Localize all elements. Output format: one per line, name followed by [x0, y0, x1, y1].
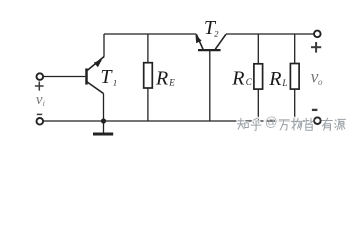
svg-text:R: R: [155, 68, 168, 90]
svg-text:R: R: [268, 68, 281, 90]
svg-text:R: R: [231, 67, 244, 89]
svg-text:i: i: [43, 99, 45, 108]
svg-text:o: o: [318, 77, 323, 87]
svg-text:L: L: [281, 78, 287, 88]
svg-text:E: E: [168, 77, 175, 87]
svg-text:@: @: [265, 115, 278, 129]
svg-text:1: 1: [113, 78, 117, 88]
svg-text:2: 2: [214, 28, 219, 38]
svg-text:T: T: [100, 66, 113, 88]
svg-text:C: C: [246, 77, 253, 87]
